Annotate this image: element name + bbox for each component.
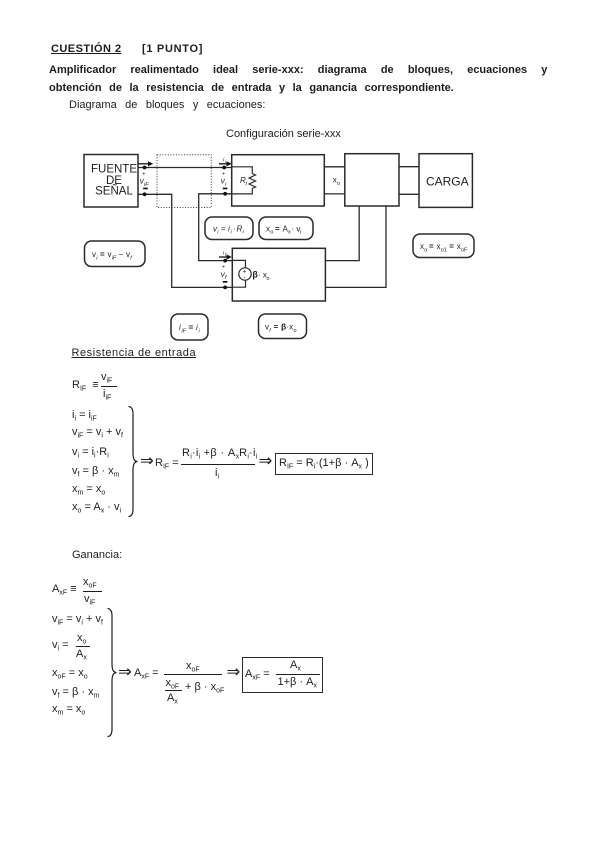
implication and big fraction [140, 453, 154, 470]
header: CUESTIÓN 2 [1 PUNTO] [51, 43, 122, 55]
wire: amplifier output top to sampling [324, 166, 345, 168]
svg-text:f: f [130, 256, 132, 262]
wire: sampling down to feedback input + [325, 206, 359, 261]
node dot on source - terminal [143, 192, 147, 196]
svg-text:iF: iF [112, 256, 117, 262]
svg-text:o: o [337, 181, 340, 187]
svg-text:o: o [267, 276, 270, 282]
svg-text:β: β [281, 322, 286, 332]
wire: source bottom terminal [138, 194, 232, 287]
block amplifier A [232, 155, 325, 206]
svg-text:=: = [274, 323, 279, 332]
boxed result AxF [242, 657, 323, 693]
svg-text:o: o [270, 230, 273, 236]
svg-text:=: = [429, 242, 434, 251]
equation label box xo = Ax·vi [259, 217, 313, 240]
equation label box iiF = ii [171, 314, 208, 340]
equation label box vi = viF - vf [85, 241, 146, 267]
node dot on feedback + output [223, 259, 227, 263]
block feedback network [232, 248, 325, 301]
block FUENTE DE SEÑAL [84, 155, 138, 208]
svg-text:i: i [199, 329, 201, 335]
node dot on source + terminal [143, 166, 147, 170]
equations list [52, 614, 103, 629]
curly brace 2 [107, 608, 121, 738]
svg-text:i: i [243, 230, 245, 236]
bold justified paragraph [49, 65, 547, 76]
svg-text:o: o [294, 328, 297, 334]
svg-text:·x: ·x [287, 323, 294, 332]
subtitle [69, 100, 265, 111]
label viF with polarity [140, 172, 149, 190]
svg-text:iF: iF [182, 329, 187, 335]
svg-text:i: i [96, 256, 98, 262]
svg-text:i: i [246, 182, 248, 188]
svg-text:=: = [189, 323, 194, 332]
node dot on amplifier + input [222, 166, 226, 170]
svg-text:f: f [225, 275, 227, 281]
BLOCK DIAGRAM SVG [0, 115, 599, 345]
RIF definition [72, 380, 99, 395]
node dot on amplifier - input [223, 192, 227, 196]
wire: sampling to CARGA bottom [399, 193, 419, 195]
svg-text:·: · [233, 225, 236, 234]
svg-text:i: i [225, 182, 227, 188]
implication and big fraction [118, 664, 132, 681]
wire: sampling down to feedback input - [325, 206, 386, 287]
svg-text:oF: oF [461, 248, 468, 254]
svg-text:−: − [119, 250, 124, 259]
svg-text:o: o [424, 248, 427, 254]
wire: amplifier output bottom to sampling [324, 193, 345, 195]
diagram title [226, 129, 341, 140]
svg-text:CARGA: CARGA [426, 174, 469, 188]
curly brace 1 [128, 406, 142, 518]
svg-text:FUENTE: FUENTE [91, 163, 137, 175]
svg-text:=: = [449, 242, 454, 251]
node dot on feedback - output [223, 286, 227, 290]
svg-text:SEÑAL: SEÑAL [95, 185, 133, 198]
svg-text:=: = [221, 225, 226, 234]
equation label box vi = ii·Ri [205, 217, 253, 240]
boxed result RIF [275, 453, 373, 475]
equation label box vf = β·xo [259, 314, 307, 339]
svg-text:=: = [100, 250, 105, 259]
svg-text:1: 1 [444, 248, 447, 254]
current arrow ii at amplifier input [219, 158, 232, 167]
wire: source top to amplifier top (rail viF+) [138, 167, 232, 169]
dotted input-port box [157, 155, 211, 208]
label xo on amplifier output [333, 176, 340, 188]
resistor Ri inside amplifier [232, 167, 256, 194]
svg-text:i: i [217, 230, 219, 236]
equations list [72, 410, 97, 425]
equation label box xo = xoL = xoF [413, 234, 474, 258]
AxF definition [52, 584, 77, 599]
label vf with polarity [221, 265, 228, 283]
block CARGA [419, 154, 472, 208]
dependent source β·xo [232, 260, 269, 287]
svg-text:i: i [300, 230, 302, 236]
svg-text:iF: iF [144, 182, 149, 188]
block sampling network [345, 154, 399, 206]
wire: sampling to CARGA top [399, 166, 419, 168]
svg-text:f: f [269, 328, 271, 334]
svg-text:=: = [275, 225, 280, 234]
current arrow into feedback + output [219, 251, 232, 260]
label vi with polarity [221, 172, 228, 190]
current arrow iiF at source output [139, 161, 154, 166]
wire: feedback + output up to amplifier - input [199, 194, 233, 261]
